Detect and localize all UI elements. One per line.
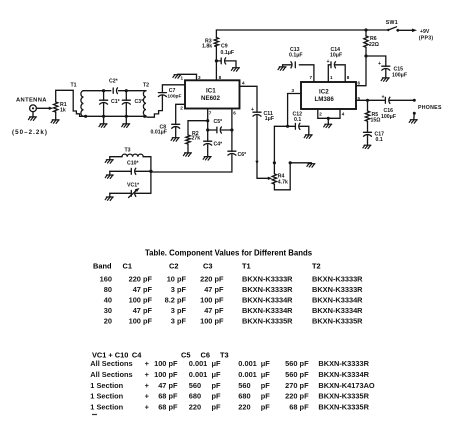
svg-text:BKXN-K3335R: BKXN-K3335R [312, 317, 363, 326]
svg-text:VC1*: VC1* [127, 183, 140, 189]
svg-text:100 pF: 100 pF [154, 370, 178, 379]
svg-text:3 pF: 3 pF [171, 285, 187, 294]
node A (C1 top) [102, 89, 105, 92]
svg-text:T2: T2 [143, 83, 149, 89]
svg-text:BKXN-K3333R: BKXN-K3333R [312, 275, 363, 284]
wire R6 node to IC2 pin 6 [356, 56, 366, 86]
svg-text:220 pF: 220 pF [129, 275, 153, 284]
svg-text:C2: C2 [169, 262, 178, 271]
svg-text:T2: T2 [312, 262, 321, 271]
svg-text:3 pF: 3 pF [171, 306, 187, 315]
node: pin6/C5 [230, 128, 233, 131]
svg-text:pF: pF [261, 392, 271, 401]
svg-text:0.001: 0.001 [189, 370, 208, 379]
svg-text:10μF: 10μF [330, 53, 342, 59]
svg-text:pF: pF [212, 403, 222, 412]
node: R3/C9/pin8 [215, 59, 218, 62]
node: R6 bottom [364, 54, 367, 57]
svg-text:3: 3 [198, 75, 201, 80]
svg-text:PHONES: PHONES [418, 105, 442, 111]
svg-text:8.2 pF: 8.2 pF [165, 296, 187, 305]
capacitor C17 [364, 132, 385, 145]
wire pin7 node to R2 [188, 121, 208, 135]
svg-text:C3*: C3* [135, 99, 145, 105]
svg-text:+: + [382, 95, 385, 101]
resistor R2 [186, 131, 200, 153]
svg-text:68 pF: 68 pF [289, 403, 309, 412]
svg-text:3: 3 [292, 88, 295, 93]
svg-text:1 Section: 1 Section [90, 381, 123, 390]
svg-text:1k: 1k [60, 107, 66, 113]
pin 3 (IC2) wire down [288, 94, 301, 127]
svg-text:+: + [378, 61, 381, 67]
svg-text:C3: C3 [203, 262, 212, 271]
svg-text:47 pF: 47 pF [204, 306, 224, 315]
svg-text:68 pF: 68 pF [158, 392, 178, 401]
svg-text:0.001: 0.001 [189, 359, 208, 368]
svg-text:8: 8 [219, 75, 222, 80]
capacitor C14 bridging pins 1-8 [327, 47, 346, 82]
pin 2 (IC1) wire to C8 [176, 104, 185, 137]
svg-text:220 pF: 220 pF [285, 392, 309, 401]
capacitor C2 [109, 79, 119, 94]
svg-text:(PP3): (PP3) [419, 35, 434, 41]
capacitor C5 [208, 119, 232, 133]
svg-text:BKXN-K3333R: BKXN-K3333R [242, 285, 293, 294]
svg-text:C7: C7 [169, 88, 176, 94]
capacitor C11 [251, 107, 274, 178]
svg-text:C6*: C6* [238, 152, 248, 158]
transformer T2 [143, 83, 162, 118]
node: R4 return [289, 161, 292, 164]
capacitor C4 [204, 141, 223, 156]
svg-text:100μF: 100μF [381, 114, 396, 120]
svg-text:C5*: C5* [214, 119, 224, 125]
svg-text:C1: C1 [123, 262, 132, 271]
wire R1 bottom to ground [55, 112, 57, 120]
wire R4 bottom loop to ground wire [274, 163, 290, 190]
table 1 header row [93, 262, 321, 271]
svg-text:100pF: 100pF [167, 94, 181, 100]
wire R6 node to C15 [366, 56, 386, 66]
ground (T3) [105, 160, 113, 164]
svg-text:2: 2 [319, 112, 322, 117]
pin 6 (IC1) wire down [231, 109, 233, 152]
svg-text:68 pF: 68 pF [158, 403, 178, 412]
ground (C1) [99, 124, 107, 128]
svg-text:0.001: 0.001 [238, 370, 256, 379]
capacitor C9 [216, 43, 236, 67]
capacitor C3 [122, 91, 144, 117]
svg-text:T1: T1 [71, 82, 77, 88]
svg-text:1μF: 1μF [265, 116, 274, 122]
svg-text:Band: Band [93, 262, 112, 271]
antenna connector [30, 105, 37, 117]
svg-text:BKXN-K3333R: BKXN-K3333R [312, 285, 363, 294]
svg-text:C2*: C2* [109, 79, 119, 85]
ground (R1) [51, 120, 59, 124]
wire C7 to IC1 pin 1 [162, 85, 185, 93]
svg-text:560 pF: 560 pF [285, 359, 309, 368]
ground (R2) [183, 153, 191, 157]
svg-text:40: 40 [104, 296, 112, 305]
svg-text:μF: μF [212, 359, 222, 368]
svg-text:27k: 27k [192, 136, 201, 142]
svg-text:47 pF: 47 pF [158, 381, 178, 390]
table 1 data rows [100, 275, 364, 326]
transformer T1 [71, 82, 86, 116]
svg-text:5: 5 [358, 96, 361, 101]
resistor R4 [272, 126, 288, 185]
svg-text:0.1: 0.1 [294, 117, 301, 123]
capacitor C7 [158, 88, 181, 99]
svg-text:C4*: C4* [214, 142, 224, 148]
pin 3 (IC1) wire to ground [178, 74, 197, 80]
svg-text:BKXN-K4173AO: BKXN-K4173AO [318, 381, 375, 390]
amplifier IC2 LM386 [301, 82, 356, 109]
node (C3 bottom) [125, 115, 128, 118]
node: VFO junction [149, 170, 152, 173]
svg-text:4: 4 [242, 81, 245, 86]
svg-text:+9V: +9V [420, 29, 430, 35]
variable capacitor VC1 [110, 183, 151, 198]
resistor R6 [364, 30, 379, 56]
op-amp/mixer IC1 NE602 [185, 80, 240, 108]
svg-text:1.8k: 1.8k [202, 44, 212, 50]
wire R1 top to T1 link [56, 90, 73, 102]
ground (C9) [231, 68, 239, 72]
svg-text:47 pF: 47 pF [204, 285, 224, 294]
capacitor C15 [378, 61, 407, 79]
svg-text:22Ω: 22Ω [369, 42, 379, 48]
svg-text:BKXN-K3335R: BKXN-K3335R [242, 317, 293, 326]
node: phones hot terminal [413, 99, 416, 102]
ground (VC1) [105, 197, 113, 201]
svg-text:220 pF: 220 pF [200, 275, 224, 284]
node: R6 top on rail [364, 28, 367, 31]
svg-text:pF: pF [261, 403, 271, 412]
wire C11 to R4 wiper (arrow) [257, 177, 272, 180]
svg-text:BKXN-K3334R: BKXN-K3334R [312, 306, 363, 315]
svg-text:pF: pF [212, 392, 222, 401]
wire VFO bus vertical [150, 157, 152, 194]
ground (phones) [409, 120, 417, 124]
svg-text:100μF: 100μF [392, 73, 407, 79]
inductor T3 [110, 147, 151, 159]
svg-text:All Sections: All Sections [90, 370, 132, 379]
svg-text:2: 2 [180, 106, 183, 111]
svg-text:20: 20 [104, 317, 112, 326]
svg-text:pF: pF [212, 381, 222, 390]
node: pins2-4 ground wire [327, 117, 330, 120]
svg-text:+: + [145, 359, 150, 368]
svg-text:47 pF: 47 pF [133, 306, 153, 315]
svg-text:680: 680 [238, 392, 250, 401]
svg-text:BKXN-K3333R: BKXN-K3333R [318, 359, 369, 368]
wire supply rail [216, 29, 388, 31]
svg-text:100 pF: 100 pF [154, 359, 178, 368]
svg-text:100 pF: 100 pF [200, 317, 224, 326]
svg-text:C4: C4 [132, 351, 142, 360]
svg-text:C1*: C1* [111, 99, 121, 105]
capacitor C6 [151, 151, 247, 172]
node on R4 line [273, 161, 276, 164]
node (C1 bottom) [102, 115, 105, 118]
node: pin5/R5/C16 [366, 99, 369, 102]
svg-text:6: 6 [358, 80, 361, 85]
ground (C4) [203, 157, 211, 161]
table 2 data rows [90, 359, 375, 412]
svg-text:+: + [145, 370, 150, 379]
ground (C13) [278, 67, 286, 71]
svg-text:560 pF: 560 pF [285, 370, 309, 379]
ground (C17) [363, 145, 371, 149]
svg-text:4.7k: 4.7k [278, 179, 288, 185]
table 2 header row [92, 351, 229, 360]
svg-text:4: 4 [342, 112, 345, 117]
svg-text:0.001: 0.001 [238, 359, 256, 368]
svg-text:0.1μF: 0.1μF [221, 50, 235, 56]
svg-text:C9: C9 [221, 43, 228, 49]
svg-text:1: 1 [181, 76, 184, 81]
svg-text:All Sections: All Sections [90, 359, 132, 368]
arrow mark on C11 line [255, 161, 258, 165]
svg-text:T3: T3 [125, 147, 131, 153]
node: T1 secondary bottom [84, 115, 87, 118]
svg-text:8: 8 [347, 75, 350, 80]
capacitor C10 [110, 160, 151, 174]
svg-text:220: 220 [238, 403, 250, 412]
svg-text:47 pF: 47 pF [133, 285, 153, 294]
ground (C10) [105, 175, 113, 179]
capacitor C8 [151, 124, 180, 135]
svg-text:T3: T3 [220, 351, 229, 360]
svg-text:μF: μF [261, 359, 271, 368]
svg-text:C10*: C10* [127, 160, 140, 166]
svg-text:BKXN-K3334R: BKXN-K3334R [318, 370, 369, 379]
pin 7 (IC2) wire to C13 [299, 65, 314, 82]
svg-text:+: + [327, 59, 330, 65]
svg-text:15Ω: 15Ω [371, 118, 381, 124]
svg-text:1 Section: 1 Section [90, 403, 123, 412]
svg-text:NE602: NE602 [201, 95, 220, 102]
svg-text:SW1: SW1 [386, 20, 398, 26]
svg-text:270 pF: 270 pF [285, 381, 309, 390]
svg-text:μF: μF [261, 370, 271, 379]
svg-text:100 pF: 100 pF [129, 317, 153, 326]
svg-text:IC1: IC1 [206, 88, 216, 95]
svg-text:7: 7 [209, 111, 212, 116]
ground (C15) [381, 78, 389, 82]
svg-text:0.01μF: 0.01μF [151, 130, 167, 136]
svg-text:1 Section: 1 Section [90, 392, 123, 401]
ground (pin3 IC1) [173, 75, 181, 79]
node: pin7/R2 [206, 119, 209, 122]
pin 8 (IC1) wire to supply node [215, 61, 217, 80]
svg-text:T1: T1 [242, 262, 251, 271]
svg-text:30: 30 [104, 306, 112, 315]
pin 4 (IC1) wire to C11 [240, 86, 258, 112]
svg-text:BKXN-K3335R: BKXN-K3335R [318, 403, 369, 412]
wire bottom rail [86, 115, 145, 117]
resistor R1 [54, 102, 67, 113]
svg-text:160: 160 [100, 275, 112, 284]
svg-text:0.1: 0.1 [376, 137, 383, 143]
svg-text:(50–2.2k): (50–2.2k) [12, 129, 48, 136]
pin 7 (IC1) wire down [207, 109, 209, 142]
svg-text:1: 1 [330, 75, 333, 80]
capacitor C16 [368, 95, 414, 121]
svg-text:0.1μF: 0.1μF [289, 53, 303, 59]
node B (C3 top) [125, 89, 128, 92]
wire C3 bottom to ground [125, 116, 127, 123]
svg-text:BKXN-K3334R: BKXN-K3334R [242, 306, 293, 315]
svg-text:+: + [145, 392, 150, 401]
wire junction to C12 [274, 125, 295, 127]
svg-text:100 pF: 100 pF [200, 296, 224, 305]
ground (C12) [304, 135, 312, 139]
wire antenna to R1 wiper (arrow) [36, 107, 53, 110]
wire node to ground [290, 162, 311, 164]
node: phones return terminal [413, 112, 416, 115]
svg-text:BKXN-K3335R: BKXN-K3335R [318, 392, 369, 401]
capacitor C12 [293, 112, 309, 135]
svg-text:3 pF: 3 pF [171, 317, 187, 326]
wire to +9V (arrow) [398, 29, 417, 33]
svg-text:680: 680 [189, 392, 201, 401]
svg-text:LM386: LM386 [315, 96, 335, 103]
wire top rail T1 to T2 [84, 90, 147, 92]
ground (antenna) [28, 117, 36, 121]
stray mark (scan artifact) [92, 414, 97, 416]
svg-text:560: 560 [238, 381, 250, 390]
ground (R4 return) [307, 164, 315, 168]
capacitor C13 [283, 47, 303, 68]
node: T2 coil bottom [143, 115, 146, 118]
node: pin3/C12/R4 junction [286, 125, 289, 128]
svg-text:220: 220 [189, 403, 201, 412]
svg-text:BKXN-K3334R: BKXN-K3334R [312, 296, 363, 305]
svg-text:Table. Component Values for Di: Table. Component Values for Different Ba… [145, 248, 313, 257]
svg-text:6: 6 [233, 111, 236, 116]
resistor R3 [202, 30, 219, 61]
switch SW1 [386, 20, 399, 32]
ground (C8) [171, 138, 179, 142]
svg-text:100 pF: 100 pF [129, 296, 153, 305]
wire C1 bottom to ground [103, 116, 105, 123]
svg-text:BKXN-K3334R: BKXN-K3334R [242, 296, 293, 305]
capacitor C1 [100, 91, 121, 117]
svg-text:IC2: IC2 [319, 89, 329, 96]
svg-text:+: + [145, 403, 150, 412]
svg-text:BKXN-K3333R: BKXN-K3333R [242, 275, 293, 284]
svg-text:7: 7 [310, 75, 313, 80]
svg-text:+: + [145, 381, 150, 390]
svg-text:ANTENNA: ANTENNA [16, 98, 47, 104]
svg-text:pF: pF [261, 381, 271, 390]
pin 5 (IC2) wire to node [356, 99, 368, 101]
svg-text:80: 80 [104, 285, 112, 294]
ground (IC2 pins 2,4) [327, 118, 329, 124]
pins 2,4 (IC2) to ground [318, 109, 340, 118]
resistor R5 [365, 100, 380, 132]
svg-text:+: + [251, 107, 254, 113]
svg-text:μF: μF [212, 370, 222, 379]
ground (C3) [122, 124, 130, 128]
svg-text:10 pF: 10 pF [167, 275, 187, 284]
svg-text:560: 560 [189, 381, 201, 390]
wire phones return to ground [413, 113, 416, 119]
node: pin7/C5 [206, 128, 209, 131]
